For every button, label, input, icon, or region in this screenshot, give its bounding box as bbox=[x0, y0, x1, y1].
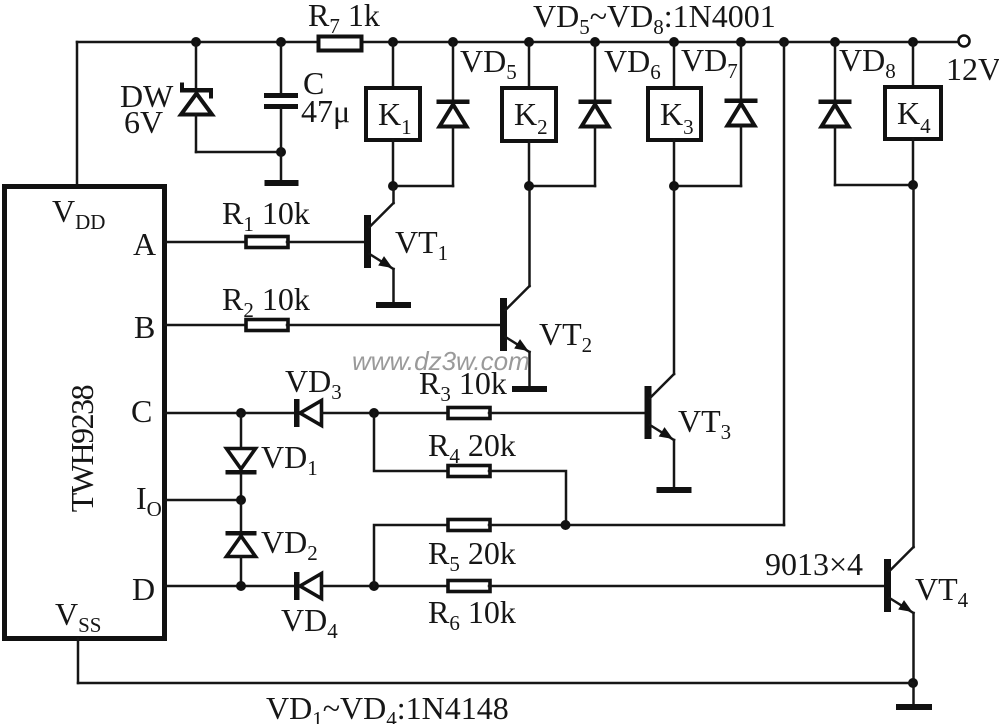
resistor R6 10k bbox=[428, 581, 516, 636]
svg-text:R6 10k: R6 10k bbox=[428, 594, 516, 635]
wire: VD4 to R6 bbox=[322, 585, 449, 588]
wire: VT4 emitter down to bottom rail bbox=[912, 613, 915, 683]
relay K3 bbox=[648, 88, 701, 140]
diode VD2 bbox=[226, 524, 318, 565]
wire: VT3 collector up to K3 node bbox=[673, 186, 676, 374]
transistor VT3 bbox=[645, 374, 675, 440]
wire: pin B to R2 bbox=[165, 324, 247, 327]
resistor R2 10k bbox=[222, 281, 310, 331]
diode VD1 bbox=[226, 439, 318, 480]
wire: relay K1 top lead bbox=[392, 42, 395, 87]
diode VD5 bbox=[437, 43, 517, 127]
svg-text:D: D bbox=[132, 571, 155, 607]
wire: R5 right to pull-up feed bbox=[489, 524, 784, 527]
wire: bottom rail node to ground bbox=[912, 683, 915, 704]
node: junction top rail / relay K4 bbox=[908, 37, 918, 47]
wire: relay K2 top lead bbox=[528, 42, 531, 87]
svg-text:B: B bbox=[134, 309, 155, 345]
wire: R5 branch up from D line bbox=[374, 525, 448, 586]
svg-text:TWH9238: TWH9238 bbox=[64, 385, 100, 512]
node: junction C line / VD1 bbox=[236, 408, 246, 418]
wire: left vertical from top rail to VDD pin bbox=[76, 42, 79, 186]
wire: pin D to VD4 bbox=[165, 585, 296, 588]
svg-text:R5 20k: R5 20k bbox=[428, 535, 516, 576]
wire: diode VD7 top lead bbox=[740, 42, 743, 99]
diode VD7 bbox=[681, 42, 758, 126]
svg-text:R1 10k: R1 10k bbox=[222, 195, 310, 236]
wire: VT2 emitter down to ground bbox=[528, 352, 531, 386]
wire: VSS pin down bbox=[77, 639, 80, 683]
wire: zener DW bottom lead down bbox=[195, 115, 198, 153]
wire: DW to capacitor C bottom node bbox=[196, 151, 281, 154]
wire: R4 branch down from C line bbox=[374, 413, 448, 471]
node: junction DW / C bottom bbox=[276, 147, 286, 157]
wire: diode VD6 top lead bbox=[594, 42, 597, 100]
svg-text:6V: 6V bbox=[124, 104, 163, 140]
node: junction top rail / diode VD5 bbox=[448, 37, 458, 47]
node: junction K2 / VD6 / VT2 collector bbox=[524, 181, 534, 191]
wire: R6 to VT4 base bbox=[489, 585, 884, 588]
relay K2 bbox=[502, 88, 556, 141]
wire: VD3 to R3 bbox=[322, 412, 449, 415]
wire: VD2 bottom lead to D line bbox=[240, 557, 243, 587]
wire: relay K4 bottom lead bbox=[912, 139, 915, 185]
svg-text:A: A bbox=[133, 226, 156, 262]
wire: VD7 to K3 bottom node bbox=[674, 185, 741, 188]
resistor R4 20k bbox=[428, 427, 516, 477]
wire: VT3 emitter down to ground bbox=[673, 440, 676, 487]
svg-text:12V: 12V bbox=[946, 51, 999, 87]
wire: R4/R5 pull-up feed from top rail bbox=[783, 42, 786, 525]
wire: +12V top rail bbox=[77, 41, 958, 44]
node: junction top rail / R4-R5 feed wire bbox=[779, 37, 789, 47]
transistor VT4 bbox=[884, 547, 914, 613]
ground: below capacitor C bbox=[265, 180, 299, 186]
svg-text:C: C bbox=[131, 393, 152, 429]
capacitor C 47u bbox=[264, 65, 350, 129]
wire: VD8 to K4 bottom node bbox=[835, 184, 913, 187]
wire: diode VD5 top lead bbox=[452, 42, 455, 100]
node: junction K1 / VD5 / VT1 collector bbox=[388, 181, 398, 191]
node: junction VT4 emitter / bottom rail bbox=[908, 678, 918, 688]
node: junction D line / VD2 bbox=[236, 581, 246, 591]
relay K1 bbox=[366, 88, 420, 140]
wire: pin A to R1 bbox=[165, 241, 247, 244]
node: junction Io / VD1 / VD2 bbox=[236, 495, 246, 505]
IC U1 TWH9238 box bbox=[5, 187, 165, 639]
diode VD8 bbox=[819, 42, 896, 127]
ground: below VT3 bbox=[657, 487, 692, 493]
wire: diode VD8 bottom lead bbox=[834, 127, 837, 186]
diode VD3 bbox=[285, 363, 342, 427]
wire: capacitor C bottom lead to ground bbox=[280, 109, 283, 181]
node: junction C line / R4 branch bbox=[369, 408, 379, 418]
wire: VD1 bottom lead to Io line bbox=[240, 475, 243, 501]
svg-text:R7 1k: R7 1k bbox=[308, 0, 380, 38]
node: junction top rail / relay K1 bbox=[388, 37, 398, 47]
diode VD6 bbox=[579, 43, 661, 127]
svg-text:47μ: 47μ bbox=[301, 93, 350, 129]
transistor VT1 bbox=[364, 203, 394, 269]
wire: VD5 to K1 bottom node bbox=[393, 185, 453, 188]
wire: zener DW top lead bbox=[195, 42, 198, 88]
terminal: 12V supply open circle bbox=[959, 36, 970, 47]
zener diode DW 6V bbox=[120, 78, 213, 140]
wire: relay K1 bottom lead bbox=[392, 140, 395, 186]
wire: diode VD7 bottom lead bbox=[740, 126, 743, 187]
svg-text:R3 10k: R3 10k bbox=[419, 365, 507, 406]
ground: below VT2 bbox=[512, 386, 547, 392]
resistor R3 10k bbox=[419, 365, 507, 419]
diode VD4 bbox=[281, 572, 338, 643]
wire: capacitor C top lead bbox=[280, 42, 283, 93]
node: junction top rail / diode VD8 bbox=[830, 37, 840, 47]
node: junction top rail / relay K3 bbox=[669, 37, 679, 47]
node: junction top rail / zener DW bbox=[191, 37, 201, 47]
wire: VD1 top lead from C line bbox=[240, 413, 243, 448]
wire: bottom VSS rail bbox=[78, 682, 913, 685]
wire: diode VD6 bottom lead bbox=[594, 127, 597, 187]
node: junction R4 / R5 / feed wire bbox=[561, 520, 571, 530]
wire: VT1 emitter down to ground bbox=[392, 269, 395, 302]
wire: pin C to VD3 bbox=[165, 412, 296, 415]
transistor VT2 bbox=[500, 286, 530, 352]
node: junction K4 / VD8 / VT4 collector bbox=[908, 180, 918, 190]
node: junction top rail / relay K2 bbox=[524, 37, 534, 47]
resistor R5 20k bbox=[428, 520, 516, 577]
wire: R3 to VT3 base bbox=[489, 412, 645, 415]
ground: below VT4 bbox=[896, 704, 932, 710]
wire: R4 right to R5 junction bbox=[489, 471, 566, 525]
node: junction top rail / capacitor C bbox=[276, 37, 286, 47]
svg-text:R4 20k: R4 20k bbox=[428, 427, 516, 468]
node: junction top rail / diode VD7 bbox=[736, 37, 746, 47]
wire: relay K3 top lead bbox=[673, 42, 676, 87]
svg-text:R2 10k: R2 10k bbox=[222, 281, 310, 322]
ground: below VT1 bbox=[376, 302, 411, 308]
wire: relay K3 bottom lead bbox=[673, 140, 676, 186]
node: junction top rail / diode VD6 bbox=[590, 37, 600, 47]
node: junction D line / R5 branch bbox=[369, 581, 379, 591]
resistor R7 with value 1k bbox=[308, 0, 380, 51]
wire: VT2 collector up to K2 node bbox=[528, 186, 531, 286]
relay K4 bbox=[885, 87, 941, 139]
node: junction K3 / VD7 / VT3 collector bbox=[669, 181, 679, 191]
wire: VT4 collector up to K4 node bbox=[912, 185, 915, 547]
wire: diode VD8 top lead bbox=[834, 42, 837, 100]
svg-text:9013×4: 9013×4 bbox=[765, 546, 863, 582]
wire: VT1 collector up to K1 node bbox=[392, 186, 395, 203]
wire: R1 to VT1 base bbox=[287, 241, 364, 244]
wire: pin Io to VD1/VD2 node bbox=[165, 499, 241, 502]
resistor R1 10k bbox=[222, 195, 310, 248]
wire: VD6 to K2 bottom node bbox=[529, 185, 595, 188]
wire: R2 to VT2 base bbox=[287, 324, 500, 327]
wire: diode VD5 bottom lead bbox=[452, 127, 455, 187]
wire: relay K2 bottom lead bbox=[528, 141, 531, 186]
wire: VD2 top lead from Io node bbox=[240, 500, 243, 531]
wire: relay K4 top lead bbox=[912, 42, 915, 86]
